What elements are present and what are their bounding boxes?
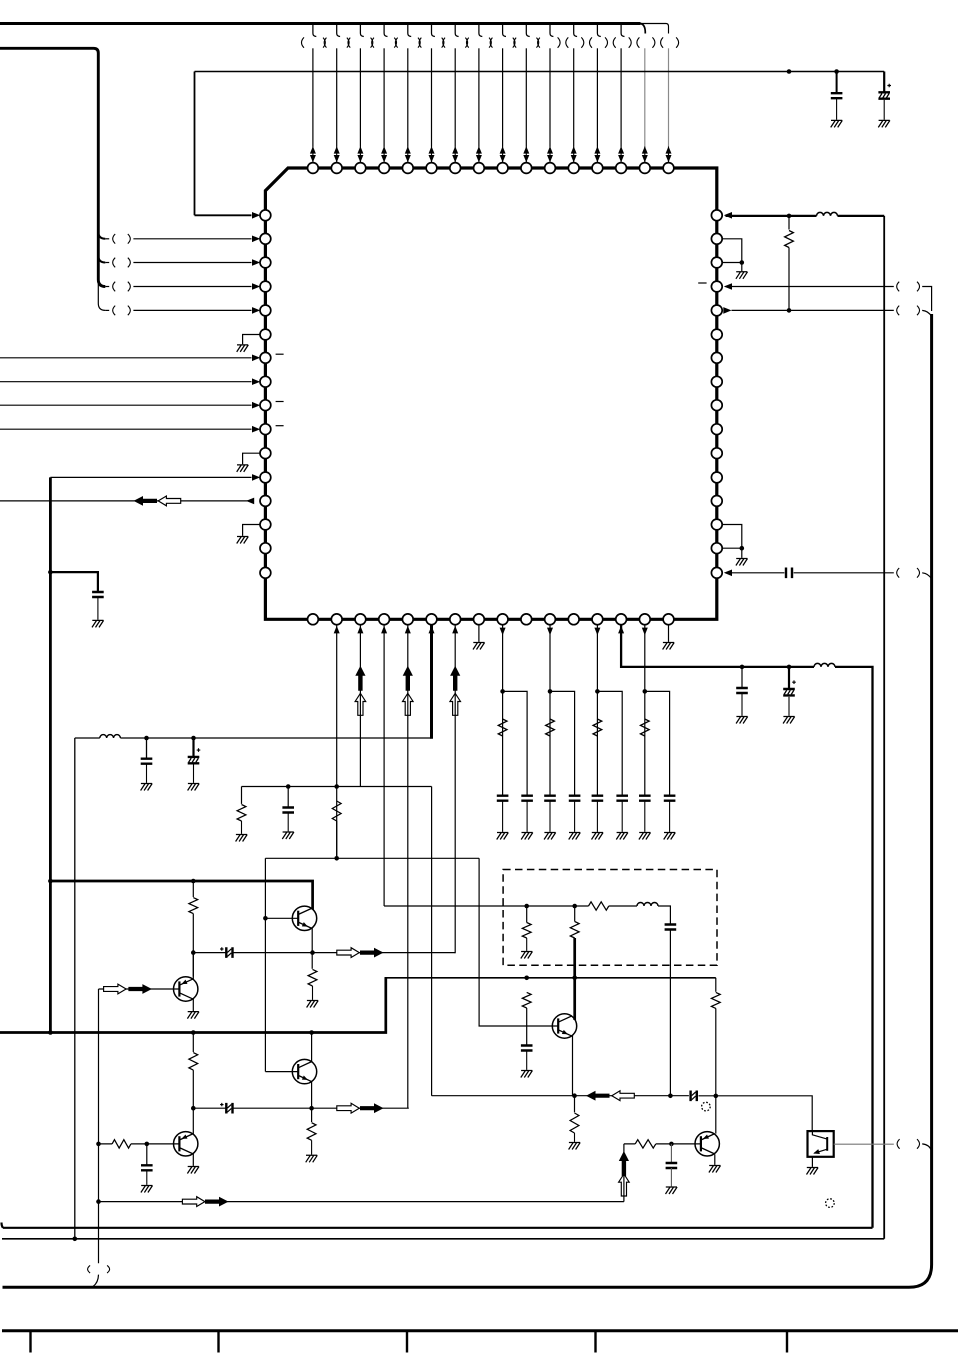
- wire right pin4 to connector: [726, 286, 894, 288]
- arrow out of pin13: [246, 498, 254, 505]
- capacitor C14: [146, 1144, 148, 1165]
- wire CN6 into right bus: [922, 1144, 931, 1151]
- junction: [263, 916, 268, 921]
- ground: [736, 559, 748, 566]
- wire cap line y952: [193, 952, 455, 954]
- signal arrow solid up d: [619, 1151, 629, 1176]
- arrow down from bottom pin x=644.8: [642, 628, 648, 636]
- wire left pin1 to top rail: [194, 72, 196, 216]
- wire top pin line 9: [502, 48, 504, 146]
- resistor R10: [711, 992, 720, 1008]
- pin mark dash: [698, 282, 706, 284]
- wire right pin16 with series cap: [726, 572, 894, 574]
- wire bottom pin6 thick VCC: [430, 625, 433, 739]
- ground: [709, 1166, 721, 1173]
- ground: [783, 717, 795, 724]
- wire Q3 emitter chain: [311, 1081, 313, 1122]
- resistor R11: [192, 1033, 194, 1053]
- ground: [521, 1071, 533, 1078]
- ground stub left pin6: [243, 335, 261, 345]
- capacitor C10 (in box): [665, 925, 677, 930]
- arrow up into bottom pin14: [618, 626, 624, 634]
- wire Q6 base chain: [624, 1143, 700, 1145]
- resistor R chain 4: [640, 719, 649, 736]
- ground: [473, 643, 485, 650]
- transistor Q1: [292, 906, 316, 930]
- junction: [96, 1199, 101, 1204]
- capacitor C1: [836, 72, 838, 93]
- signal arrow hollow right d: [182, 1197, 205, 1207]
- connector CN2 contact 4: [105, 309, 109, 311]
- resistor R7: [192, 881, 194, 897]
- wire Q1 emitter chain: [311, 928, 313, 969]
- connector CN6 contact: [897, 1139, 900, 1149]
- ground: [569, 833, 581, 840]
- wire thick rail y1032: [0, 978, 386, 1033]
- ground: [736, 272, 748, 279]
- capacitor C8 (electrolytic): [192, 738, 194, 756]
- filter dashed box: [503, 870, 717, 966]
- ground: [237, 345, 249, 352]
- wire top pin line 12: [573, 48, 575, 146]
- wire base column x265: [264, 858, 266, 1071]
- arrow into left pin 4: [252, 283, 260, 290]
- ground: [187, 1012, 199, 1019]
- wire Q5 collector (thick): [573, 938, 576, 1020]
- junction: [572, 904, 577, 909]
- junction: [191, 879, 196, 884]
- ground: [497, 833, 509, 840]
- capacitor C15: [670, 1144, 672, 1162]
- arrow up into bottom pin x=360.4: [357, 626, 363, 634]
- junction: [286, 784, 291, 789]
- arrow down from bottom pin x=550.0: [547, 628, 553, 636]
- arrow up into bottom pin x=336.7: [334, 626, 340, 634]
- capacitor C16 (series, electrolytic): [691, 1091, 697, 1102]
- resistor R1: [788, 216, 790, 230]
- connector CN3 contact: [897, 282, 900, 292]
- arrow into pin: [252, 378, 260, 385]
- connector CN5 contact: [897, 568, 900, 578]
- inductor L4 (in box): [637, 903, 658, 907]
- wire input line y=405.2: [0, 404, 252, 406]
- ground: [616, 833, 628, 840]
- wire Q6 emitter: [714, 1154, 716, 1165]
- wire Q3 collector: [311, 1033, 313, 1063]
- junction: [787, 214, 792, 219]
- wire supply drop left: [74, 738, 76, 1239]
- inductor L1: [817, 212, 838, 216]
- connector CN1 contacts (top row): [302, 37, 305, 47]
- wire cap branch: [50, 572, 98, 591]
- capacitor Ca2: [544, 796, 556, 801]
- ground: [807, 1168, 819, 1175]
- transistor Q5 (driver): [552, 1014, 576, 1038]
- arrow out of right pin5: [723, 307, 731, 314]
- resistor R8: [308, 969, 317, 986]
- wire Q5 emitter chain: [573, 1035, 575, 1112]
- wire top pin line 5: [407, 48, 409, 146]
- arrow into left pin 1: [252, 212, 260, 219]
- ground: [878, 120, 890, 127]
- junction: [191, 1106, 196, 1111]
- junction: [96, 1142, 101, 1147]
- wire bottom pin2 down: [336, 625, 338, 858]
- resistor R3: [332, 801, 341, 821]
- junction: [309, 1030, 314, 1035]
- wire chain 4: [645, 625, 670, 796]
- ground: [521, 833, 533, 840]
- junction: [145, 1142, 150, 1147]
- ground: [592, 833, 604, 840]
- capacitor Ca1: [497, 796, 509, 801]
- ground: [187, 1167, 199, 1174]
- transistor Q6: [695, 1132, 719, 1156]
- wire top horizontal bus: [0, 22, 641, 25]
- ground stub left pin11: [243, 453, 261, 464]
- signal arrow solid right: [360, 948, 384, 958]
- wire left bus (thick): [0, 48, 105, 286]
- ground: [307, 1001, 319, 1008]
- pin mark dash: [276, 353, 284, 355]
- junction: [834, 69, 839, 74]
- junction: [572, 976, 577, 981]
- wire input line y=429.2: [0, 428, 252, 430]
- wire top pin line 11: [549, 48, 551, 146]
- junction: [524, 976, 529, 981]
- signal arrow hollow right: [337, 948, 360, 958]
- arrow into left pin 2: [252, 236, 260, 243]
- signal arrow hollow up: [355, 693, 366, 715]
- wire VCC2 (thick) from bottom pin14: [621, 625, 872, 1228]
- capacitor C13 (electrolytic series): [226, 1103, 232, 1114]
- ground: [736, 717, 748, 724]
- title block column ticks: [31, 1332, 788, 1353]
- transistor Q4: [174, 1132, 198, 1156]
- wire output left pin13: [0, 500, 253, 502]
- wire Q6 collector: [715, 1096, 717, 1134]
- junction: [572, 1093, 577, 1098]
- wire top pin line 13: [596, 48, 598, 146]
- wire top pin line 7: [454, 48, 456, 146]
- wire bottom pin4 down: [383, 625, 385, 906]
- arrow into pin: [252, 355, 260, 362]
- ground: [663, 643, 675, 650]
- wire Q4 base chain: [99, 1143, 180, 1145]
- signal arrow solid right c: [360, 1103, 384, 1113]
- arrow into right pin1: [724, 212, 732, 219]
- junction: [334, 784, 339, 789]
- signal arrow hollow right b: [104, 984, 127, 994]
- wire top pin line 16: [668, 48, 670, 146]
- capacitor C4 (series): [786, 568, 792, 579]
- signal arrow hollow up b: [403, 693, 414, 715]
- ground: [831, 120, 843, 127]
- capacitor C7: [146, 738, 148, 758]
- capacitor Cb2: [569, 796, 581, 801]
- capacitor C9: [287, 787, 289, 807]
- junction: [668, 1094, 673, 1099]
- capacitor Cb4: [664, 796, 676, 801]
- ground stub bottom pin8: [478, 625, 480, 642]
- resistor R chain 1: [498, 719, 507, 736]
- arrow into pin: [252, 474, 260, 481]
- wire bottom rail A: [2, 1223, 873, 1228]
- ground: [569, 1143, 581, 1150]
- junction: [191, 736, 196, 741]
- IC U1 left pins: [260, 210, 271, 221]
- arrow into left pin 5: [252, 307, 260, 314]
- connector CN4 contact: [897, 306, 900, 316]
- resistor R chain 3: [593, 719, 602, 736]
- connector CN2 contact 2: [105, 262, 109, 264]
- arrow up into bottom pin x=407.8: [405, 626, 411, 634]
- signal arrow solid (left out): [134, 496, 158, 506]
- resistor R2: [241, 787, 243, 804]
- resistor R14: [635, 1140, 656, 1148]
- wire input line y=381.7: [0, 381, 252, 383]
- pin mark dash: [276, 425, 284, 427]
- pin mark dash: [276, 401, 284, 403]
- signal arrow solid up b: [403, 666, 413, 691]
- capacitor C11 (electrolytic series): [226, 947, 232, 958]
- wire drive line y1201: [99, 1144, 624, 1202]
- junction: [669, 1142, 674, 1147]
- capacitor C6 (electrolytic): [788, 667, 790, 688]
- resistor R15: [570, 1113, 579, 1133]
- ground stub left pin14: [243, 525, 261, 536]
- arrow into pin: [252, 426, 260, 433]
- resistor R6 (in box): [589, 902, 609, 910]
- capacitor C12: [521, 1046, 533, 1051]
- IC U1 body outline: [265, 168, 716, 619]
- ground: [544, 833, 556, 840]
- wire curve into right bus 2: [922, 573, 931, 579]
- wire Q3 base: [265, 1071, 298, 1073]
- wire box cap branch: [658, 906, 670, 924]
- arrow up into bottom pin x=455.2: [452, 626, 458, 634]
- junction: [787, 665, 792, 670]
- ground: [664, 833, 676, 840]
- wire bottom rail B: [2, 1238, 884, 1240]
- resistor R chain 2: [546, 719, 555, 736]
- wire curve into right bus: [922, 310, 931, 316]
- wire bottom pin7 down: [454, 625, 456, 953]
- wire mic column: [98, 989, 100, 1263]
- capacitor C5: [741, 667, 743, 687]
- receiver SP1 internal transistor: [826, 1137, 828, 1151]
- wire VCC right drop: [883, 216, 885, 1239]
- receiver SP1 box: [808, 1131, 834, 1157]
- wire Q4 emitter: [192, 1154, 194, 1166]
- signal arrow solid up: [355, 666, 365, 691]
- resistor R5 (in box): [570, 922, 579, 939]
- signal arrow hollow (left out): [158, 496, 181, 506]
- wire Q2 collector: [192, 953, 194, 980]
- wire top pin line 14: [620, 48, 622, 146]
- wire bottom pin5 down: [407, 625, 409, 1108]
- junction: [310, 950, 315, 955]
- capacitor Ca3: [592, 796, 604, 801]
- wire supply y738: [75, 737, 432, 739]
- arrow into left pin 3: [252, 259, 260, 266]
- signal arrow solid up c: [450, 666, 460, 691]
- ground: [639, 833, 651, 840]
- wire chain 3: [597, 625, 622, 796]
- junction: [309, 1106, 314, 1111]
- resistor R12: [307, 1123, 316, 1141]
- junction: [191, 1030, 196, 1035]
- junction: [787, 308, 792, 313]
- transistor Q2 (input): [174, 977, 198, 1001]
- wire left pin12 from left rail: [50, 476, 251, 478]
- wire Q2 base arrows: [99, 988, 180, 990]
- signal arrow solid left: [586, 1091, 610, 1101]
- wire top pin line 4: [383, 48, 385, 146]
- wire top pin line 8: [478, 48, 480, 146]
- node bubble: [702, 1102, 711, 1111]
- capacitor Ca4: [639, 796, 651, 801]
- ground: [141, 784, 153, 791]
- wire rail y977: [385, 977, 716, 979]
- signal arrow solid right d: [205, 1197, 229, 1207]
- wire input line y=357.8: [0, 357, 252, 359]
- signal arrow hollow left: [612, 1091, 635, 1101]
- capacitor C3: [92, 592, 104, 597]
- arrow into right pin4: [724, 283, 732, 290]
- wire top pin line 1: [312, 48, 314, 146]
- capacitor Cb1: [521, 796, 533, 801]
- IC U1 bottom pins: [308, 614, 319, 625]
- wire top pin line 2: [336, 48, 338, 146]
- wire top pin line 15: [644, 48, 646, 146]
- inductor L3: [100, 735, 121, 738]
- ground: [237, 537, 249, 544]
- wire top pin line 10: [525, 48, 527, 146]
- node bubble 2: [826, 1199, 835, 1208]
- wire Q2 emitter: [192, 999, 194, 1011]
- connector CN2 contact 1: [105, 238, 109, 240]
- junction: [714, 1094, 719, 1099]
- arrow up into bottom pin x=384.1: [381, 626, 387, 634]
- arrow into right pin16: [724, 570, 732, 577]
- signal arrow hollow up c: [450, 693, 461, 715]
- resistor R9: [522, 992, 531, 1008]
- wire cap line y1108: [193, 1107, 408, 1109]
- junction: [787, 69, 792, 74]
- ground: [141, 1186, 153, 1193]
- wire left rail (thick): [49, 477, 52, 1034]
- junction: [48, 879, 53, 884]
- wire thick rail y881: [50, 881, 312, 910]
- IC U1 top pins: [308, 163, 319, 174]
- wire right bus (thick): [3, 314, 932, 1287]
- ground: [282, 832, 294, 839]
- arrow down from bottom pin x=597.4: [594, 628, 600, 636]
- wire Q1 base: [265, 917, 298, 919]
- junction: [524, 904, 529, 909]
- IC U1 right pins: [711, 210, 722, 221]
- wire output line y1095: [432, 1096, 813, 1131]
- connector CN7 (mic input): [88, 1265, 91, 1273]
- wire node y858: [265, 858, 558, 1026]
- junction: [740, 665, 745, 670]
- arrow down from bottom pin x=502.6: [500, 628, 506, 636]
- transistor Q3: [292, 1059, 316, 1083]
- wire chain 2: [550, 625, 575, 796]
- connector CN1 stubs (top row): [313, 25, 316, 37]
- wire chain 1: [503, 625, 527, 796]
- title block top rule: [2, 1329, 958, 1332]
- ground: [236, 835, 248, 842]
- ground: [666, 1187, 678, 1194]
- wire right pins 14-15 bracket: [722, 525, 742, 549]
- ground: [237, 465, 249, 472]
- ground: [92, 620, 104, 627]
- wire node y906 into filter: [384, 905, 637, 907]
- connector CN2 contact 3: [105, 286, 109, 288]
- wire rail y977 detail: [715, 978, 717, 992]
- wire bottom pin3 down: [359, 625, 361, 787]
- signal arrow hollow right c: [337, 1103, 360, 1113]
- junction: [334, 856, 339, 861]
- junction: [48, 570, 53, 575]
- resistor R4 (in box): [522, 923, 531, 939]
- wire top pin line 6: [431, 48, 433, 146]
- junction: [144, 736, 149, 741]
- arrow into pin: [252, 402, 260, 409]
- junction: [48, 1030, 53, 1035]
- wire node y786: [242, 787, 432, 1096]
- ground: [306, 1155, 318, 1162]
- wire SP1 to ground: [811, 1157, 813, 1167]
- capacitor Cb3: [616, 796, 628, 801]
- wire right pin1 net with inductor: [726, 215, 885, 217]
- wire VDD top rail: [195, 71, 885, 73]
- signal arrow solid right b: [128, 984, 152, 994]
- inductor L2: [814, 663, 835, 666]
- wire SP1 base lead: [834, 1143, 894, 1145]
- ground: [188, 784, 200, 791]
- ground stub bottom pin16: [668, 625, 670, 642]
- wire to right bus: [922, 287, 931, 312]
- capacitor C2 (electrolytic): [883, 72, 885, 92]
- wire top pin line 3: [359, 48, 361, 146]
- junction: [73, 1237, 78, 1242]
- resistor R13: [112, 1140, 131, 1148]
- signal arrow hollow up d: [619, 1174, 630, 1196]
- junction: [191, 950, 196, 955]
- ground: [521, 952, 533, 959]
- wire right pin5 to connector: [732, 309, 894, 311]
- wire right pins 2-3 bracket: [722, 239, 742, 263]
